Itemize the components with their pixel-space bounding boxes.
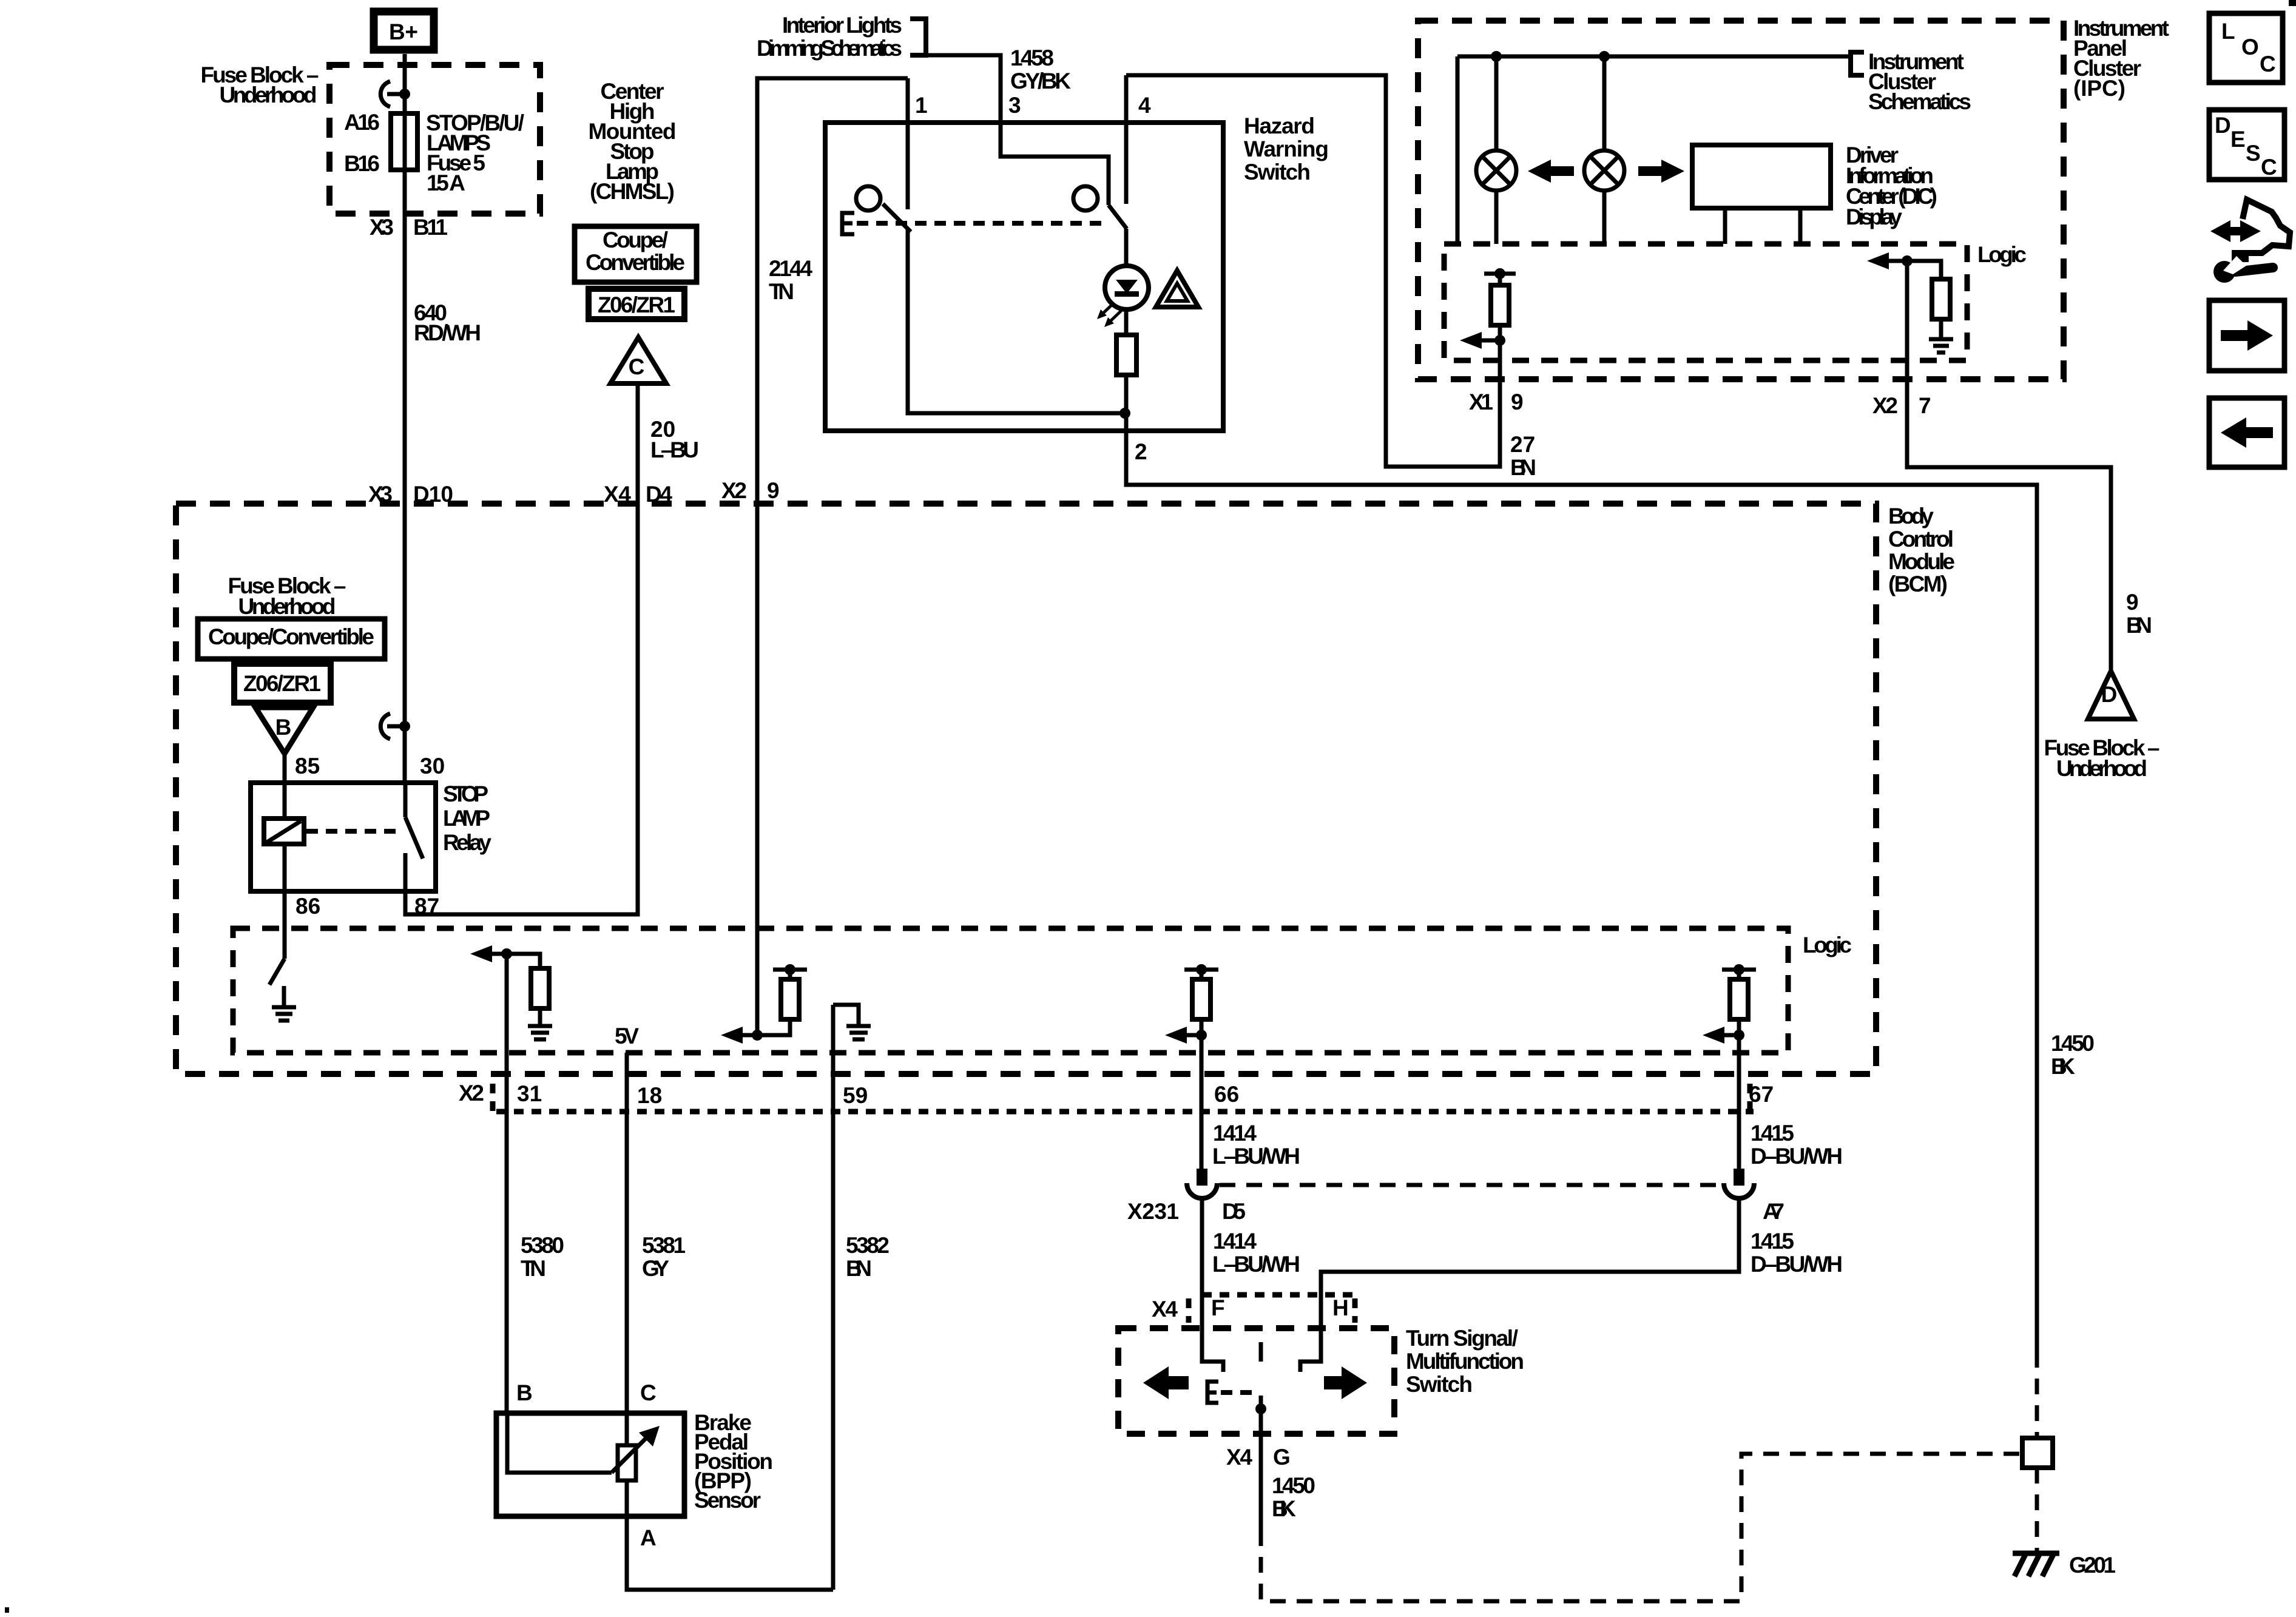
box Z06/ZR1 (relay) (234, 664, 331, 703)
ground (relay 86) (272, 986, 296, 1021)
supply bar (67) (1722, 968, 1756, 972)
resistor R (X2-31) (507, 954, 540, 1024)
junction dot X1-9 (1494, 335, 1505, 346)
off-schematic bracket (interior lights) (910, 19, 926, 55)
svg-text:TN: TN (769, 279, 794, 304)
relay switch: pin 30 stub (403, 783, 408, 817)
wire label 27 BN (1510, 432, 1536, 480)
label STOP LAMP Relay (443, 781, 491, 855)
supply bar (66) (1184, 968, 1218, 972)
label Fuse Block - Underhood (relay) (228, 573, 346, 619)
svg-text:BK: BK (1272, 1496, 1296, 1521)
wire 5380 TN from logic to BPP pin B (505, 954, 509, 1412)
splice S box (2022, 1438, 2053, 1468)
svg-text:Underhood: Underhood (238, 594, 336, 619)
junction dot X2-7 (1902, 255, 1913, 266)
label Instrument Cluster Schematics (1868, 49, 1971, 114)
wire label 1415 D-BU/WH (lower) (1751, 1229, 1843, 1277)
in-line connector X231 D5: female cup (1187, 1183, 1217, 1198)
svg-text:D: D (2101, 682, 2118, 707)
svg-text:15 A: 15 A (427, 170, 465, 195)
label Fuse Block - Underhood (top left) (201, 62, 319, 107)
svg-text:X4: X4 (1152, 1297, 1178, 1322)
switch common pole (1259, 1342, 1263, 1434)
label Fuse Block - Underhood (right) (2044, 735, 2160, 781)
ground (X2-59) (833, 1005, 871, 1039)
svg-text:30: 30 (420, 754, 445, 778)
wire label 5380 TN (521, 1233, 564, 1281)
svg-text:2: 2 (1135, 439, 1147, 464)
supply bar (2144) (773, 968, 807, 972)
svg-text:1415: 1415 (1751, 1229, 1794, 1254)
wire label 640 RD/WH (414, 300, 481, 345)
svg-text:X2: X2 (459, 1081, 484, 1106)
DIC display box (1692, 145, 1831, 208)
wire 20 L-BU / relay 87 riser to CHMSL (405, 383, 638, 914)
connector comb separator left (490, 1084, 496, 1112)
svg-text:31: 31 (517, 1081, 542, 1106)
body control module box (dashed) (176, 504, 1876, 1074)
svg-text:X231: X231 (1127, 1199, 1179, 1224)
wire BPP pin A return (627, 1516, 833, 1590)
ground (IPC X2-7) (1929, 339, 1953, 353)
svg-text:3: 3 (1008, 93, 1021, 118)
icon right-turn arrow box (2209, 300, 2284, 371)
wire label 20 L-BU (650, 417, 699, 462)
svg-text:L: L (2221, 19, 2235, 44)
wire label 1414 L-BU/WH (lower) (1212, 1229, 1300, 1277)
hazard switch box (825, 123, 1223, 431)
svg-text:X2: X2 (1872, 393, 1898, 418)
svg-text:B+: B+ (389, 19, 418, 44)
svg-text:Logic: Logic (1977, 242, 2027, 267)
connector label X1 9 (1469, 390, 1524, 414)
resistor R (IPC X2-7) (1907, 261, 1941, 337)
switch E actuator bracket (1207, 1382, 1218, 1403)
dashed wire into splice (2035, 1352, 2039, 1551)
switch linkage dashed (1221, 1390, 1255, 1395)
junction dot bus/lamp1 (1491, 51, 1502, 62)
hazard left fixed contact (856, 186, 880, 211)
wire 1414 upper (66 to X231 D5) (1200, 1035, 1204, 1169)
svg-text:Control: Control (1888, 527, 1954, 552)
svg-text:5V: 5V (615, 1024, 639, 1048)
page artifact bottom left (5, 1607, 9, 1613)
svg-text:Display: Display (1846, 204, 1902, 229)
stop lamp relay box (251, 783, 436, 891)
svg-text:O: O (2241, 35, 2259, 59)
hazard triangle icon (1156, 271, 1198, 307)
in-line connector X231 A7: male terminal (1734, 1169, 1744, 1186)
svg-text:1414: 1414 (1213, 1229, 1257, 1254)
svg-text:85: 85 (295, 754, 320, 778)
svg-text:(IPC): (IPC) (2073, 76, 2125, 101)
signal arrow (X2-9 / 2144) (741, 1033, 757, 1038)
BPP internal wire pin B to wiper (507, 1413, 612, 1473)
svg-text:F: F (1211, 1295, 1225, 1320)
svg-text:18: 18 (637, 1083, 662, 1108)
junction dot pin2 (1119, 408, 1130, 419)
hazard left switch blade (883, 204, 911, 232)
DIC display legs (1725, 208, 1800, 244)
BPP potentiometer resistor (625, 1413, 629, 1516)
svg-text:87: 87 (414, 894, 439, 919)
icon left-turn arrow box (2209, 398, 2284, 467)
in-line connector X231 D5: male terminal (1197, 1169, 1207, 1186)
label fuse value (426, 110, 524, 195)
svg-text:D–BU/WH: D–BU/WH (1751, 1252, 1843, 1277)
fuse block underhood box (dashed) (329, 65, 540, 214)
label Brake Pedal Position (BPP) Sensor (694, 1410, 773, 1513)
junction dot common pole (1255, 1403, 1266, 1414)
box Z06/ZR1 (CHMSL) (589, 289, 684, 319)
svg-text:RD/WH: RD/WH (414, 320, 481, 345)
svg-text:Schematics: Schematics (1868, 89, 1971, 114)
svg-text:Hazard: Hazard (1244, 113, 1315, 138)
svg-text:H: H (1332, 1295, 1349, 1320)
harness dashed line at X231 (1220, 1183, 1723, 1187)
relay 86 switch blade to ground (269, 959, 285, 985)
resistor in hazard switch (1116, 335, 1136, 375)
svg-text:86: 86 (295, 894, 320, 919)
svg-text:X2: X2 (721, 478, 747, 503)
connector label X3 D10 (368, 482, 453, 507)
turn signal switch box (dashed) (1118, 1328, 1394, 1434)
wire left turn lamp drop (1494, 56, 1499, 244)
svg-text:L–BU: L–BU (650, 437, 699, 462)
svg-text:TN: TN (521, 1256, 546, 1281)
wire 5382 BN from logic ground to BPP pin A (831, 1005, 836, 1590)
relay linkage dashed (306, 829, 402, 834)
svg-text:STOP: STOP (443, 781, 488, 806)
svg-text:Z06/ZR1: Z06/ZR1 (243, 671, 321, 696)
svg-text:D5: D5 (1222, 1199, 1246, 1224)
label Body Control Module (BCM) (1888, 504, 1955, 596)
connector label X2 9 (BCM top) (721, 478, 780, 503)
svg-text:C: C (629, 354, 645, 379)
wire 5381 GY from logic 5V to BPP pin C (625, 1053, 629, 1412)
svg-text:C: C (2260, 52, 2276, 76)
wire 27 BN: hazard pin 4 to IPC X1-9 (1126, 75, 1500, 467)
relay switch blade (405, 817, 423, 859)
wire IPC bus left drop (1456, 56, 1460, 244)
junction dot 2144 (752, 1030, 763, 1041)
svg-text:1450: 1450 (2051, 1031, 2095, 1056)
resistor R (67) pull-up (1737, 970, 1741, 1035)
svg-text:59: 59 (843, 1083, 868, 1108)
label Center High Mounted Stop Lamp (CHMSL) (589, 79, 677, 204)
connector label X4 G (1226, 1445, 1291, 1470)
svg-text:5382: 5382 (846, 1233, 890, 1258)
resistor R (IPC X1-9) (1498, 274, 1502, 340)
comb separator left of F (1186, 1298, 1192, 1323)
svg-text:9: 9 (2126, 590, 2139, 615)
signal arrow (66) (1185, 1033, 1201, 1038)
svg-text:GY/BK: GY/BK (1010, 69, 1071, 93)
svg-text:LAMP: LAMP (443, 806, 490, 831)
svg-text:BK: BK (2051, 1054, 2075, 1079)
svg-text:Switch: Switch (1406, 1372, 1473, 1397)
svg-text:L–BU/WH: L–BU/WH (1212, 1252, 1300, 1277)
wire label 1415 D-BU/WH (upper) (1751, 1121, 1843, 1169)
svg-text:Coupe/: Coupe/ (603, 228, 668, 252)
svg-text:(CHMSL): (CHMSL) (590, 179, 675, 204)
box Coupe/Convertible (CHMSL) (575, 226, 697, 282)
svg-text:A16: A16 (344, 110, 380, 135)
svg-text:1: 1 (915, 93, 928, 118)
wire 640 RD/WH from B+ through fuse down to relay pin 30 (403, 54, 407, 783)
svg-text:Coupe/Convertible: Coupe/Convertible (208, 624, 374, 649)
svg-text:A7: A7 (1763, 1199, 1784, 1224)
svg-text:66: 66 (1214, 1082, 1239, 1107)
left turn block arrow (1528, 160, 1574, 183)
wire label 2144 TN (769, 256, 812, 304)
svg-text:5380: 5380 (521, 1233, 564, 1258)
off-page connector triangle C (610, 337, 666, 383)
label Instrument Panel Cluster (IPC) (2073, 16, 2169, 101)
svg-text:Sensor: Sensor (694, 1488, 761, 1513)
wire IPC X2-7 to fuse block triangle D (1907, 261, 2111, 671)
wire relay 85 to 86 (283, 844, 287, 959)
box Coupe/Convertible (relay) (198, 619, 385, 659)
svg-text:Relay: Relay (443, 830, 491, 855)
resistor R (66) pull-up (1200, 970, 1204, 1035)
label Hazard Warning Switch (1244, 113, 1329, 184)
svg-text:Warning: Warning (1244, 137, 1329, 161)
IPC feed bus wire (1457, 55, 1851, 59)
svg-text:X4: X4 (1226, 1445, 1252, 1470)
right turn block arrow (1638, 160, 1684, 183)
svg-text:5381: 5381 (642, 1233, 686, 1258)
svg-text:A: A (640, 1525, 657, 1550)
svg-text:BN: BN (1510, 455, 1536, 480)
junction dot 66 (1196, 1030, 1207, 1041)
svg-text:BN: BN (846, 1256, 872, 1281)
splice curl at fuse input (380, 81, 410, 107)
ground G201 (2013, 1553, 2059, 1576)
svg-text:Interior Lights: Interior Lights (782, 13, 902, 38)
connector comb separator right (1747, 1084, 1753, 1112)
wire label 5382 BN (846, 1233, 890, 1281)
wire label 1450 BK (main) (2051, 1031, 2095, 1079)
icon LOC box (2209, 13, 2283, 83)
instrument panel cluster box (dashed) (1418, 21, 2064, 379)
svg-text:G: G (1273, 1445, 1291, 1470)
junction dot X2-31 (501, 948, 512, 959)
svg-text:X1: X1 (1469, 390, 1493, 414)
IPC logic box (dashed) (1444, 244, 1967, 360)
wire triangle B to relay pin 85 (283, 754, 287, 819)
hazard indicator LED (1097, 266, 1149, 327)
ground (X2-31) (528, 1026, 552, 1039)
svg-text:(BCM): (BCM) (1888, 572, 1948, 596)
wire 1458 GY/BK: bracket to hazard pin 3 (926, 55, 1109, 205)
wire hazard pin 1 upper (906, 78, 910, 209)
svg-text:2144: 2144 (769, 256, 812, 281)
off-page connector triangle B (255, 707, 313, 754)
svg-text:27: 27 (1510, 432, 1535, 457)
signal arrow into logic (X1-9) (1481, 339, 1500, 343)
junction dot 67 (1734, 1030, 1744, 1041)
wire label 1458 GY/BK (1010, 46, 1071, 93)
svg-text:9: 9 (1511, 390, 1524, 414)
svg-text:D–BU/WH: D–BU/WH (1751, 1144, 1843, 1169)
left turn indicator lamp (1476, 150, 1516, 191)
svg-text:1415: 1415 (1751, 1121, 1794, 1146)
svg-text:Multifunction: Multifunction (1406, 1349, 1524, 1374)
connector label X3 B11 (370, 215, 448, 240)
wire 1415 lower (A7 to turn signal H) (1300, 1198, 1739, 1372)
wire 1414 lower (D5 to turn signal F) (1202, 1198, 1223, 1372)
BPP sensor box (496, 1413, 684, 1516)
connector comb X4 (F/H) dotted (1202, 1292, 1355, 1298)
svg-text:L–BU/WH: L–BU/WH (1212, 1144, 1300, 1169)
svg-text:G201: G201 (2069, 1553, 2116, 1578)
wire label 1414 L-BU/WH (upper) (1212, 1121, 1300, 1169)
IPC logic input X2-7: signal arrow (1887, 259, 1907, 263)
svg-text:B: B (275, 715, 292, 740)
dashed wire 1450 BK path to splice (1261, 1454, 2022, 1601)
hazard right fixed contact (1073, 186, 1098, 211)
svg-text:Z06/ZR1: Z06/ZR1 (598, 292, 675, 317)
wire 2144 TN: hazard pin1 feed down to BCM logic (757, 78, 908, 1035)
relay pin 87 stub (403, 853, 408, 891)
IPC logic pull-up for X1-9: supply bar (1484, 272, 1516, 276)
left turn block arrow (switch) (1143, 1366, 1189, 1399)
wire label 9 BN (2126, 590, 2152, 638)
splice curl at relay pin 30 (380, 714, 410, 739)
svg-text:67: 67 (1749, 1082, 1774, 1107)
icon vehicle with double arrow and wrench (2210, 200, 2290, 283)
hazard right switch blade (1109, 205, 1127, 229)
page artifact top right (2289, 0, 2296, 6)
wire label 1450 BK (switch) (1272, 1473, 1315, 1521)
right turn block arrow (switch) (1324, 1366, 1367, 1399)
svg-text:D: D (2215, 113, 2231, 138)
wire hazard pin 4 stub (1124, 75, 1129, 204)
signal arrow (X2-31) (490, 952, 507, 956)
svg-text:BN: BN (2126, 613, 2152, 638)
off-page connector triangle D (2088, 671, 2134, 719)
label Driver Information Center (DIC) Display (1846, 143, 1937, 229)
svg-text:B11: B11 (413, 215, 448, 240)
connector label X2 7 (1872, 393, 1931, 418)
off-schematic bracket (instrument cluster schematics) (1851, 52, 1864, 75)
label Interior Lights Dimming Schematics (757, 13, 902, 61)
svg-text:S: S (2246, 141, 2261, 166)
label Turn Signal/ Multifunction Switch (1406, 1326, 1524, 1397)
svg-text:Turn Signal/: Turn Signal/ (1406, 1326, 1518, 1351)
svg-text:B16: B16 (344, 151, 380, 176)
relay coil (264, 819, 304, 844)
svg-text:Logic: Logic (1803, 933, 1852, 957)
in-line connector X231 A7: female cup (1724, 1183, 1754, 1198)
svg-text:Body: Body (1888, 504, 1934, 528)
right turn indicator lamp (1584, 150, 1624, 191)
wire label 5381 GY (642, 1233, 686, 1281)
resistor R (2144) pull-up (757, 970, 790, 1035)
svg-text:E: E (2230, 127, 2246, 152)
hazard E actuator bracket (842, 213, 854, 234)
fuse STOP/B/U/LAMPS Fuse 5 15A (391, 113, 417, 170)
svg-text:Underhood: Underhood (2056, 756, 2147, 781)
wire 1450 BK from switch G (1259, 1434, 1263, 1530)
svg-text:9: 9 (767, 478, 780, 503)
svg-text:Module: Module (1888, 549, 1955, 574)
svg-text:Underhood: Underhood (220, 83, 317, 107)
connector label X4 D4 (604, 482, 672, 507)
signal arrow (67) (1723, 1033, 1739, 1038)
wire 1415 upper (67 to X231 A7) (1737, 1035, 1741, 1169)
hazard linkage dashed (857, 221, 1106, 226)
icon DESC box (2209, 110, 2284, 180)
junction dot supply (1494, 268, 1505, 279)
svg-text:1458: 1458 (1010, 46, 1054, 70)
svg-text:GY: GY (642, 1256, 669, 1281)
svg-text:1414: 1414 (1213, 1121, 1257, 1146)
junction dot bus/lamp2 (1599, 51, 1610, 62)
wire right turn lamp drop (1602, 56, 1607, 244)
svg-text:Convertible: Convertible (586, 250, 685, 275)
svg-text:C: C (640, 1380, 657, 1405)
connector comb dotted line (496, 1109, 1754, 1115)
power symbol B+ (374, 12, 434, 50)
svg-text:4: 4 (1138, 93, 1151, 118)
comb separator right of H (1352, 1298, 1358, 1323)
BPP wiper arrow (612, 1437, 647, 1473)
svg-text:7: 7 (1919, 393, 1931, 418)
wire hazard pin 2: blade down, out of box, right to 1450 BK drop (1126, 229, 2037, 1352)
svg-text:X3: X3 (370, 215, 394, 240)
svg-text:1450: 1450 (1272, 1473, 1315, 1498)
svg-text:Dimming Schematics: Dimming Schematics (757, 36, 902, 61)
BCM logic box (dashed) (233, 928, 1788, 1053)
svg-text:C: C (2261, 155, 2277, 180)
wire hazard pin1 lower to junction (908, 230, 1125, 413)
svg-text:B: B (516, 1380, 533, 1405)
svg-text:Switch: Switch (1244, 160, 1311, 184)
